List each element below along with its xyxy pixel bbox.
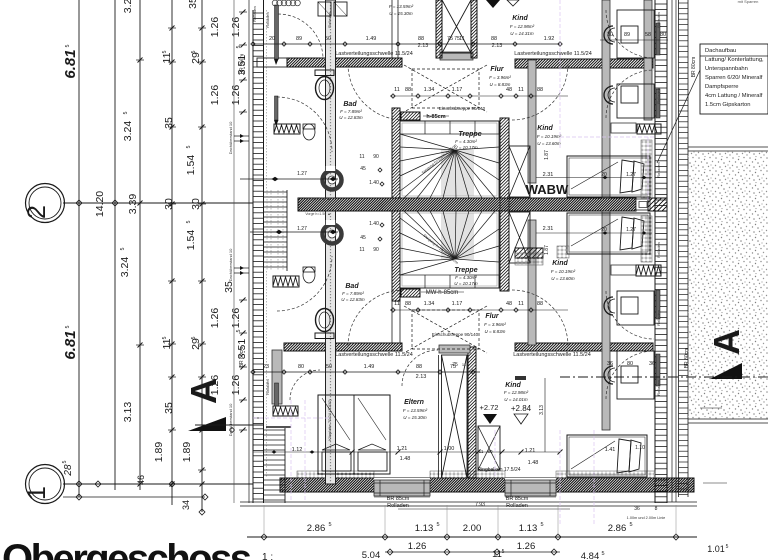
svg-text:Kind: Kind [537,125,553,132]
svg-text:Obergeschoss: Obergeschoss [2,537,252,560]
svg-text:U = 13.60m: U = 13.60m [551,276,575,281]
svg-text:11: 11 [479,449,484,454]
svg-text:Dampfsperre: Dampfsperre [705,84,739,90]
svg-text:Ringbalken 17.5/24: Ringbalken 17.5/24 [477,467,520,473]
svg-text:5: 5 [191,50,197,53]
svg-text:36: 36 [634,506,640,512]
svg-text:5: 5 [436,522,439,528]
svg-text:30: 30 [190,198,202,210]
svg-text:35: 35 [163,402,175,414]
svg-text:88: 88 [405,301,411,307]
svg-text:5: 5 [186,220,192,223]
svg-text:Bad: Bad [345,283,359,290]
svg-text:5: 5 [502,549,505,555]
svg-text:Bad: Bad [343,101,357,108]
svg-text:U = 13.60m: U = 13.60m [537,141,561,146]
svg-text:1.26: 1.26 [230,17,242,38]
svg-text:F = 13.59m²: F = 13.59m² [389,4,414,9]
svg-text:88: 88 [418,36,424,42]
svg-text:2.86: 2.86 [307,523,326,534]
svg-text:Vorge h=1.50 ▲: Vorge h=1.50 ▲ [305,212,330,216]
svg-text:U = 14.01m: U = 14.01m [504,397,528,402]
svg-text:90: 90 [373,154,379,160]
svg-text:1.13: 1.13 [519,523,538,534]
svg-text:1.49: 1.49 [366,36,377,42]
svg-text:1.5cm Gipskarton: 1.5cm Gipskarton [705,102,750,108]
svg-text:1.34: 1.34 [424,301,435,307]
svg-text:50: 50 [325,36,331,42]
svg-text:5: 5 [162,50,168,53]
svg-text:80: 80 [298,364,304,370]
svg-text:1.40: 1.40 [369,221,379,227]
svg-text:5: 5 [236,329,242,332]
svg-text:5: 5 [328,522,331,528]
svg-text:80: 80 [487,449,493,454]
svg-text:1.01: 1.01 [707,544,725,554]
svg-text:Einschubtreppe 90/140: Einschubtreppe 90/140 [439,106,486,111]
svg-text:BR 80cm: BR 80cm [240,54,246,75]
svg-text:WABW: WABW [526,182,569,197]
svg-text:88: 88 [491,36,497,42]
svg-text:BR 80cm: BR 80cm [691,57,697,78]
svg-text:Kliaplatte 70/24 (70/30): Kliaplatte 70/24 (70/30) [327,399,332,441]
svg-text:1.00: 1.00 [444,446,455,452]
svg-text:1.17: 1.17 [452,87,463,93]
svg-text:1.92: 1.92 [544,36,555,42]
svg-text:48: 48 [506,87,512,93]
svg-text:1.10: 1.10 [635,445,645,451]
svg-text:1.26: 1.26 [408,541,427,552]
svg-text:1.26: 1.26 [230,375,242,396]
svg-text:2: 2 [23,205,51,219]
svg-text:88: 88 [416,364,422,370]
svg-text:5: 5 [540,522,543,528]
svg-text:11: 11 [359,247,364,253]
svg-text:5: 5 [62,460,68,463]
svg-text:6.81: 6.81 [62,49,79,78]
svg-text:30: 30 [163,198,175,210]
svg-text:+2.72: +2.72 [480,403,499,412]
svg-text:F = 7.89m²: F = 7.89m² [340,109,362,114]
svg-text:Rolladen: Rolladen [387,503,409,509]
svg-text:3.39: 3.39 [127,194,139,215]
svg-text:11: 11 [394,87,400,93]
svg-text:Rolladen: Rolladen [656,380,661,396]
svg-text:28: 28 [63,464,74,477]
svg-text:89: 89 [296,36,302,42]
svg-text:F = 12.98m²: F = 12.98m² [504,390,529,395]
svg-text:A: A [706,329,747,355]
svg-text:2.31: 2.31 [543,226,554,232]
svg-text:20: 20 [269,36,275,42]
svg-text:2.13: 2.13 [416,374,427,380]
svg-text:11: 11 [518,301,524,307]
svg-text:45: 45 [360,166,366,172]
svg-text:89: 89 [624,32,630,38]
svg-text:1.27: 1.27 [626,227,636,233]
svg-text:Lattung/ Konterlattung,: Lattung/ Konterlattung, [705,57,764,63]
svg-text:35: 35 [163,117,175,129]
svg-text:Vorge h=1.50 ▲: Vorge h=1.50 ▲ [305,197,330,201]
svg-text:1.13: 1.13 [415,523,434,534]
svg-text:1.89: 1.89 [153,442,165,463]
svg-text:Treppe: Treppe [458,131,481,138]
svg-text:3.24: 3.24 [122,121,134,142]
svg-text:88: 88 [537,87,543,93]
svg-text:Rolladen: Rolladen [506,503,528,509]
svg-text:5: 5 [162,336,168,339]
svg-text:F = 10.19m²: F = 10.19m² [551,269,576,274]
svg-text:3.13: 3.13 [122,402,134,423]
svg-text:U = 12.83m: U = 12.83m [341,297,365,302]
svg-text:Dachüberstand 10: Dachüberstand 10 [228,121,233,154]
svg-text:U = 12.83m: U = 12.83m [339,115,363,120]
svg-text:11: 11 [492,549,502,560]
svg-text:8: 8 [655,506,658,512]
svg-text:5: 5 [120,247,126,250]
svg-text:1.00m und 2.00m Linie: 1.00m und 2.00m Linie [627,516,666,520]
svg-text:2.13: 2.13 [492,43,503,49]
svg-text:5: 5 [65,325,71,328]
svg-text:Lastverteilungsschwelle 11.5/2: Lastverteilungsschwelle 11.5/24 [514,51,592,57]
svg-text:Rolladen: Rolladen [656,310,661,326]
svg-text:1.26: 1.26 [209,308,221,329]
svg-text:1.87: 1.87 [544,245,550,255]
svg-text:Kind: Kind [512,15,528,22]
svg-text:80: 80 [660,32,666,38]
svg-text:35: 35 [187,0,199,9]
svg-text:6.81: 6.81 [62,330,79,359]
svg-text:Flur: Flur [490,66,504,73]
svg-text:1.41: 1.41 [605,447,616,453]
svg-text:75: 75 [447,36,453,42]
svg-text:5: 5 [629,522,632,528]
svg-text:1.34: 1.34 [424,87,435,93]
svg-text:Rolladen: Rolladen [265,379,270,395]
svg-text:1.40: 1.40 [369,180,379,186]
svg-text:U = 14.31m: U = 14.31m [510,31,534,36]
svg-text:5: 5 [186,145,192,148]
svg-text:5: 5 [726,544,729,550]
svg-text:Dachüberstand 10: Dachüberstand 10 [228,248,233,281]
svg-text:U = 10.17m: U = 10.17m [454,281,478,286]
svg-text:1.89: 1.89 [181,442,193,463]
svg-text:5: 5 [601,551,604,557]
svg-text:90: 90 [373,247,379,253]
svg-text:2.00: 2.00 [463,523,482,534]
svg-text:Treppe: Treppe [454,267,477,274]
svg-text:1.26: 1.26 [230,308,242,329]
svg-text:50: 50 [326,364,332,370]
svg-text:Flur: Flur [485,313,499,320]
svg-text:7.93: 7.93 [475,502,485,508]
svg-text:mit Sparren: mit Sparren [738,0,759,4]
svg-text:3.24: 3.24 [122,0,134,13]
svg-text:5: 5 [191,336,197,339]
svg-text:58: 58 [645,32,651,38]
svg-text:1.26: 1.26 [209,17,221,38]
svg-text:14.20: 14.20 [94,191,106,217]
svg-text:F = 4.30m²: F = 4.30m² [455,139,477,144]
svg-text:1.27: 1.27 [297,226,307,232]
svg-text:BR 80cm: BR 80cm [684,348,690,369]
svg-text:Eltern: Eltern [404,399,424,406]
svg-text:Einschubtreppe 90/140: Einschubtreppe 90/140 [432,332,479,337]
svg-text:A: A [183,378,224,404]
svg-text:1.26: 1.26 [517,541,536,552]
svg-text:1 :: 1 : [262,552,273,560]
svg-text:+2.84: +2.84 [511,404,532,413]
svg-text:1: 1 [23,486,51,500]
svg-text:4.84: 4.84 [581,551,600,560]
svg-text:5.04: 5.04 [362,550,381,560]
svg-text:Kind: Kind [505,382,521,389]
svg-text:34: 34 [181,500,191,510]
svg-text:Rolladen: Rolladen [656,162,661,178]
svg-text:MW-h-85cm: MW-h-85cm [426,290,459,296]
svg-text:11: 11 [459,36,465,42]
svg-text:Dachaufbau: Dachaufbau [705,48,736,54]
svg-text:1.87: 1.87 [544,150,550,160]
svg-text:46: 46 [136,475,146,485]
svg-text:5: 5 [123,111,129,114]
svg-text:88: 88 [405,87,411,93]
svg-text:1.27: 1.27 [626,172,636,178]
svg-text:45: 45 [360,235,366,241]
svg-text:F = 10.19m²: F = 10.19m² [537,134,562,139]
svg-text:F = 3.96m²: F = 3.96m² [489,75,511,80]
svg-text:1.49: 1.49 [364,364,375,370]
svg-text:2.13: 2.13 [418,43,429,49]
svg-text:75: 75 [450,364,456,370]
svg-text:F = 13.59m²: F = 13.59m² [403,408,428,413]
svg-text:35: 35 [223,281,235,293]
svg-text:80: 80 [627,361,633,367]
svg-text:U = 8.83m: U = 8.83m [485,329,506,334]
svg-text:Dachüberstand 10: Dachüberstand 10 [228,403,233,436]
svg-text:36: 36 [607,361,613,367]
svg-text:U = 10.17m: U = 10.17m [454,145,478,150]
svg-text:23: 23 [263,364,269,370]
svg-text:3.13: 3.13 [539,405,545,415]
svg-text:F = 7.89m²: F = 7.89m² [342,291,364,296]
svg-text:Kind: Kind [552,260,568,267]
svg-text:U = 15.30m: U = 15.30m [403,415,427,420]
svg-text:F = 3.96m²: F = 3.96m² [484,322,506,327]
svg-text:88: 88 [537,301,543,307]
svg-text:Lastverteilungsschwelle 11.5/2: Lastverteilungsschwelle 11.5/24 [513,352,591,358]
svg-text:11: 11 [394,301,400,307]
svg-text:1.21: 1.21 [525,448,536,454]
svg-text:36: 36 [649,361,655,367]
svg-text:U = 15.30m: U = 15.30m [389,11,413,16]
svg-text:Rolladen: Rolladen [265,12,270,28]
svg-text:Rolladen: Rolladen [656,12,661,28]
svg-text:2.86: 2.86 [608,523,627,534]
svg-text:48: 48 [506,301,512,307]
svg-text:5: 5 [65,44,71,47]
svg-text:2.31: 2.31 [543,172,554,178]
svg-text:F = 4.30m²: F = 4.30m² [455,275,477,280]
svg-text:Sparren 6/20/ Mineralf: Sparren 6/20/ Mineralf [705,75,763,81]
svg-text:BR 80cm: BR 80cm [239,347,245,368]
svg-text:1.54: 1.54 [185,155,197,176]
svg-text:1.17: 1.17 [452,301,463,307]
svg-text:5: 5 [236,45,242,48]
svg-text:Lastverteilungsschwelle 11.5/2: Lastverteilungsschwelle 11.5/24 [335,51,413,57]
svg-text:1.27: 1.27 [297,171,307,177]
svg-text:1.54: 1.54 [185,230,197,251]
svg-text:h-85cm: h-85cm [426,114,445,120]
svg-text:4cm Lattung / Mineralf: 4cm Lattung / Mineralf [705,93,763,99]
svg-text:Lastverteilungsschwelle 11.5/2: Lastverteilungsschwelle 11.5/24 [335,352,413,358]
svg-text:11: 11 [518,87,524,93]
svg-text:F = 12.98m²: F = 12.98m² [510,24,535,29]
svg-text:Rolladen: Rolladen [656,242,661,258]
svg-text:1.26: 1.26 [230,85,242,106]
svg-text:30: 30 [607,32,613,38]
svg-text:Unterspannbahn: Unterspannbahn [705,66,748,72]
svg-text:11: 11 [359,154,364,160]
svg-text:Rolladen: Rolladen [656,88,661,104]
svg-text:3.24: 3.24 [119,257,131,278]
svg-text:1.26: 1.26 [209,85,221,106]
svg-text:1.48: 1.48 [528,460,539,466]
svg-text:1.48: 1.48 [400,456,411,462]
